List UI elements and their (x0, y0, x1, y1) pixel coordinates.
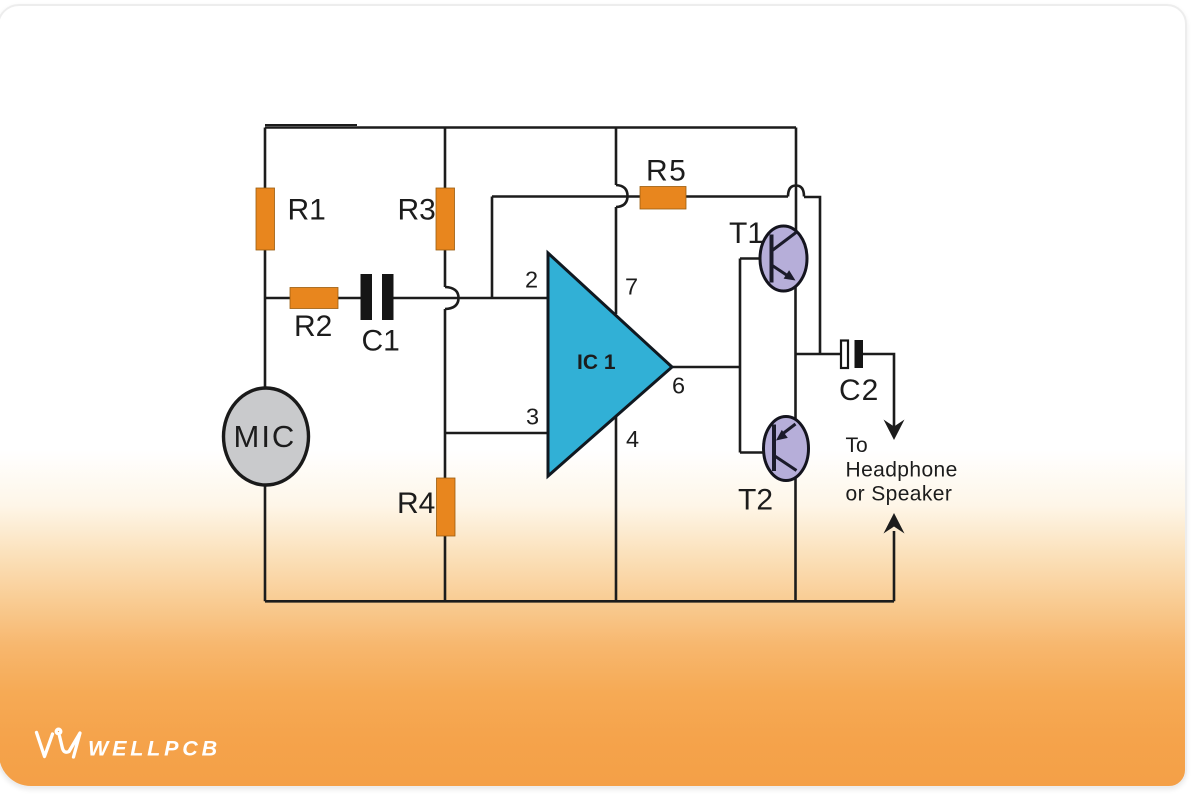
wire: R2 branch from left vertical (265, 297, 291, 300)
wire hop: vertical jumps over pin-2 wire (445, 287, 459, 309)
capacitor C1 (361, 274, 394, 320)
resistor R2 (290, 288, 338, 309)
wire: base vertical T1 to T2 (739, 259, 742, 453)
wire: C2 to down arrow corner (863, 354, 894, 429)
wire: hop to R4 (444, 309, 447, 478)
wire: left vertical top (rail to R1) (264, 128, 267, 191)
wire: feedback left leg down to pin-2 wire (491, 197, 494, 299)
op-amp IC1 (548, 253, 672, 476)
wire: mid vertical hop to op-amp pin 7 (615, 207, 618, 314)
resistor R1 (256, 188, 275, 250)
wire: overdraw segment top-left (265, 124, 357, 126)
wire: R4 to bottom rail (444, 536, 447, 601)
arrow down to headphone (884, 420, 905, 441)
wire: left vertical R1 to MIC (264, 250, 267, 389)
wire: op-amp output pin 6 to base line (672, 366, 740, 369)
transistor T1 (740, 226, 807, 291)
wire: mid vertical rail to hop (615, 128, 618, 186)
wire hop: R5 wire jumps over collector vertical (788, 186, 804, 197)
wire: right vertical rail to T1 collector (795, 128, 798, 234)
wire: hop to corner, down to output node (804, 197, 820, 354)
wire: R2 to C1 (337, 297, 361, 300)
wire: up arrow shaft (893, 531, 896, 601)
wire: R5 to hop at right vertical (686, 195, 788, 198)
resistor R5 (640, 187, 686, 210)
svg-text:WELLPCB: WELLPCB (88, 737, 221, 761)
wire: T1 emitter down through output node to T2 (794, 281, 797, 425)
wire: top supply rail (265, 126, 796, 129)
wire: output node to C2 (796, 353, 842, 356)
microphone MIC (224, 388, 309, 485)
wire: op-amp pin 4 to bottom rail (615, 417, 618, 601)
wire: bottom ground rail (265, 600, 894, 603)
wire: R3 to hop (444, 250, 447, 287)
wire hop: mid vertical jumps over feedback wire (616, 185, 628, 207)
resistor R3 (436, 188, 455, 250)
transistor T2 (740, 417, 809, 481)
wire: left vertical MIC to bottom rail (264, 484, 267, 601)
wire: op-amp pin 3 branch (445, 432, 548, 435)
wire: R3/R4 vertical, rail to R3 (444, 128, 447, 191)
capacitor C2 (841, 340, 863, 368)
wire: feedback horizontal to R5 (492, 195, 640, 198)
wire: T2 collector to bottom rail (794, 470, 797, 601)
arrow up from ground (884, 513, 905, 534)
wire: C1 to op-amp pin 2 (394, 297, 549, 300)
resistor R4 (437, 478, 456, 536)
